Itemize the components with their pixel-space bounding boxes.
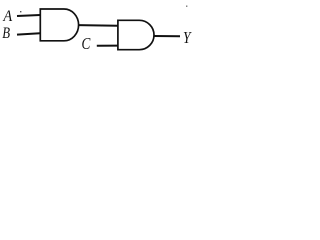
svg-text:C: C [82,35,92,54]
svg-text:A: A [2,7,12,25]
svg-text:B: B [2,25,10,43]
svg-text:Y: Y [183,29,192,48]
